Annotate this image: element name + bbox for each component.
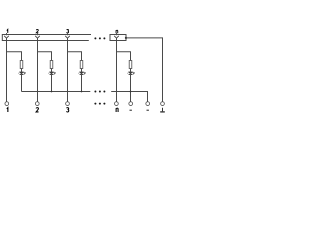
- screw terminal 2: [35, 102, 39, 106]
- wire D1 to minus bus: [21, 75, 23, 92]
- plug contact pin 3: [67, 33, 69, 35]
- LED D2: [48, 72, 55, 75]
- terminal label minus B: [147, 109, 149, 111]
- wire branch channel 2: [38, 52, 52, 61]
- plug contact pin 2: [37, 33, 39, 35]
- wire channel 2 vertical: [37, 38, 39, 101]
- plug contact pin 1: [6, 33, 8, 35]
- wire Dn through bus to terminal: [130, 75, 132, 102]
- wire branch channel 3: [68, 52, 82, 61]
- screw terminal 3: [66, 102, 70, 106]
- wire R1 to D1: [21, 69, 23, 73]
- LED Dn: [127, 72, 134, 75]
- screw terminal n: [115, 102, 119, 106]
- socket contact 3: [65, 36, 70, 38]
- plug contact pin n: [116, 33, 118, 35]
- terminal label 2 (top): [36, 29, 38, 32]
- resistor R2: [50, 61, 53, 69]
- socket contact 2: [35, 36, 40, 38]
- screw terminal minus B: [146, 102, 150, 106]
- resistor Rn: [129, 61, 132, 69]
- terminal label 2 (bottom): [36, 108, 38, 112]
- socket contact 1: [4, 36, 9, 38]
- wire from n-box to right rail: [126, 38, 163, 102]
- screw terminal minus A: [129, 102, 133, 106]
- connector housing box (channel n): [110, 35, 126, 41]
- terminal label minus A: [130, 109, 132, 111]
- minus bus left segment: [22, 91, 91, 93]
- resistor R1: [20, 61, 23, 69]
- junction Dn-bus: [130, 91, 132, 93]
- junction D2-bus: [51, 91, 53, 93]
- wire D3 to minus bus: [81, 75, 83, 92]
- ellipsis dots in housing gap: [94, 37, 105, 39]
- wire branch channel 1: [7, 52, 22, 61]
- terminal label n (top): [116, 30, 118, 33]
- node on n-box right edge: [125, 37, 127, 39]
- wire channel 1 vertical: [6, 38, 8, 101]
- wire R3 to D3: [81, 69, 83, 73]
- terminal label 1 (bottom): [7, 108, 8, 112]
- wire D2 to minus bus: [51, 75, 53, 92]
- LED D1: [18, 72, 25, 75]
- ellipsis dots terminal row: [94, 103, 105, 105]
- wire channel n vertical: [116, 38, 118, 101]
- socket contact n: [114, 36, 119, 38]
- wire branch channel n: [117, 52, 131, 61]
- terminal label 3 (bottom): [66, 108, 68, 112]
- ellipsis dots in bus gap: [94, 91, 105, 93]
- minus bus right segment: [111, 92, 147, 102]
- terminal label 1 (top): [6, 29, 9, 32]
- resistor R3: [80, 61, 83, 69]
- junction D3-bus: [81, 91, 83, 93]
- terminal label 3 (top): [67, 29, 69, 33]
- connector housing box (channels 1..3, open right end): [2, 35, 91, 41]
- ground symbol: [162, 108, 164, 112]
- terminal label n (bottom): [116, 108, 118, 112]
- LED D3: [78, 72, 85, 75]
- wire channel 3 vertical: [67, 38, 69, 101]
- wire R2 to D2: [51, 69, 53, 73]
- screw terminal 1: [5, 102, 9, 106]
- wire Rn to Dn: [130, 69, 132, 73]
- screw terminal earth: [161, 102, 165, 106]
